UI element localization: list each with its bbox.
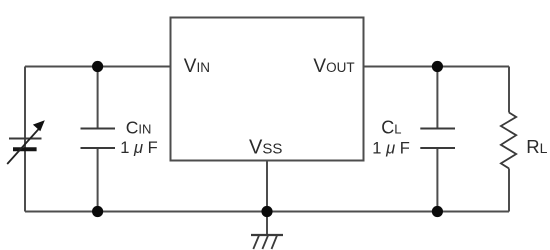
- wire right vertical lower: [508, 169, 510, 212]
- capacitor CL top plate: [420, 128, 455, 130]
- wire bottom rail: [25, 211, 509, 213]
- wire right vertical upper: [508, 67, 510, 113]
- capacitor CL bottom plate: [420, 147, 455, 149]
- variable source B1 bottom plate: [13, 147, 37, 151]
- svg-text:VOUT: VOUT: [313, 56, 354, 77]
- svg-text:CIN: CIN: [126, 118, 152, 138]
- variable source B1 top plate: [9, 138, 42, 140]
- variable source arrow head: [33, 120, 45, 131]
- junction node top-left: [92, 61, 103, 72]
- capacitor CIN bottom plate: [81, 147, 116, 149]
- wire top-right rail: [364, 66, 510, 68]
- svg-text:VSS: VSS: [249, 137, 282, 159]
- svg-text:1 μ F: 1 μ F: [120, 139, 157, 157]
- svg-text:VIN: VIN: [184, 56, 210, 77]
- svg-text:RL: RL: [526, 136, 547, 157]
- svg-text:1 μ F: 1 μ F: [372, 140, 409, 158]
- svg-text:CL: CL: [381, 118, 401, 138]
- ground hash stroke 2: [262, 236, 268, 250]
- wire CIN branch upper: [97, 67, 99, 129]
- junction node bottom-left: [92, 206, 103, 217]
- wire CL branch upper: [436, 67, 438, 129]
- resistor RL zigzag: [501, 113, 516, 169]
- op-amp U1 (regulator box): [171, 18, 364, 161]
- ground hash stroke 3: [272, 236, 278, 250]
- wire top-left rail: [25, 66, 171, 68]
- wire VSS to ground: [266, 161, 268, 236]
- wire CL branch lower: [436, 148, 438, 212]
- junction node bottom-center: [261, 206, 272, 217]
- wire left vertical: [24, 67, 26, 212]
- junction node top-right: [432, 61, 443, 72]
- capacitor CIN top plate: [81, 128, 116, 130]
- ground hash stroke 1: [253, 236, 259, 250]
- wire CIN branch lower: [97, 148, 99, 212]
- junction node bottom-right: [432, 206, 443, 217]
- variable source arrow shaft: [7, 128, 40, 165]
- ground bar: [251, 234, 283, 236]
